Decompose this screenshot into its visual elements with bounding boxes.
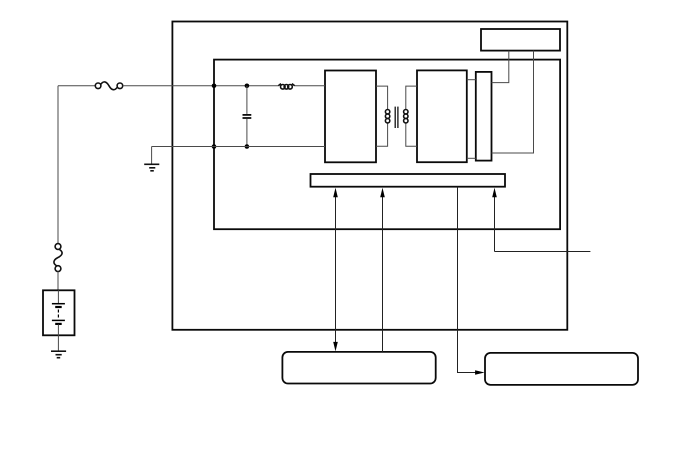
wire: supply rail from source to fuse [58, 85, 95, 87]
node: junction top rail at inner box edge [212, 84, 217, 89]
outer enclosure box [172, 22, 567, 330]
transformer T1 primary leads [376, 86, 388, 146]
arrowhead right into rounded box 2 [475, 370, 485, 375]
block U2 (converter secondary block) [417, 70, 467, 162]
wire: supply rail fuse to block U1 [123, 85, 279, 87]
ground G1 (chassis) [144, 164, 159, 171]
wire: fuse F2 to battery [57, 272, 59, 291]
transformer T1 secondary leads [406, 86, 417, 146]
arrowhead up into bar [380, 188, 385, 198]
block U1 (converter primary block) [325, 71, 376, 163]
inner module box [214, 60, 560, 230]
node: junction top rail at capacitor [245, 84, 250, 89]
wire: bar to rounded box 1 (double arrow) [335, 196, 337, 345]
transformer T1 primary winding [385, 110, 389, 123]
wire: battery to ground G2 [57, 335, 59, 351]
control bus bar [311, 174, 506, 187]
ground G2 (battery negative) [51, 351, 66, 358]
battery BT1 box [43, 290, 75, 335]
inductor L1 [278, 84, 294, 90]
wire: bar output elbow to rounded box 2 [458, 187, 477, 373]
fuse F1 [95, 82, 122, 90]
wire: external input line to bar [495, 196, 591, 252]
wire: U2 to U3 bottom link [467, 157, 476, 159]
node: junction bottom rail at capacitor [245, 144, 250, 149]
node: junction bottom rail at inner box edge [212, 144, 217, 149]
arrowhead up into bar [333, 188, 338, 198]
wire: return rail to block U1 [152, 146, 325, 148]
transformer T1 secondary winding [404, 110, 408, 123]
battery BT1 cells [52, 290, 65, 335]
arrowhead down into rounded box 1 [333, 342, 338, 352]
wire: return rail drop to chassis ground [151, 147, 153, 164]
capacitor C1 [243, 86, 252, 147]
block U3 (thin output filter block) [476, 72, 492, 161]
arrowhead up into bar [492, 188, 497, 198]
wire: U3 output top to control box [492, 51, 509, 83]
wire: source feeder down to fuse F2 [57, 86, 59, 244]
wire: U2 to U3 top link [467, 79, 476, 81]
rounded box 2 (bottom right) [485, 353, 638, 385]
top-right control box [481, 29, 560, 51]
rounded box 1 (bottom left) [282, 352, 435, 384]
fuse F2 (vertical) [54, 244, 62, 272]
wire: U3 output bottom to control box [492, 51, 534, 153]
transformer T1 core [395, 107, 398, 128]
wire: bar to rounded box 1 (plain at box, arrow at bar) [382, 196, 384, 352]
